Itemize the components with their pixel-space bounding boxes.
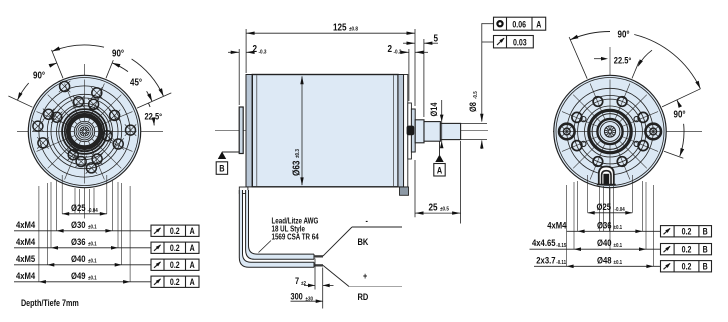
left view M4 hole dia30 bc right [102, 131, 112, 141]
left end view centerline horizontal [17, 131, 163, 133]
svg-text:A: A [190, 260, 195, 270]
dimension dia 8 -0.5 [481, 23, 483, 121]
right mounting boss (side view) [411, 109, 415, 152]
dimension 2 -0.3 right [408, 49, 410, 101]
svg-text:B: B [703, 245, 708, 255]
right dim row dia25 [588, 212, 633, 214]
shaft seal block [407, 126, 415, 136]
svg-text:±0.1: ±0.1 [88, 275, 97, 282]
right view 4.65 hole dia40 bc at -113deg [572, 141, 582, 151]
svg-text:-0.15: -0.15 [556, 243, 566, 250]
right view bolt circle dia48 [567, 88, 653, 174]
left view M4 hole dia49 bc right [126, 125, 136, 135]
right view M4 hole dia36 bc at -158deg [593, 157, 603, 167]
svg-text:2: 2 [388, 43, 393, 54]
motor body [252, 75, 398, 187]
svg-text:7: 7 [295, 275, 299, 286]
left view extension lines to dimension rows [61, 175, 63, 214]
right inner plate [408, 103, 412, 159]
svg-text:±2: ±2 [301, 281, 306, 288]
datum B flag [222, 151, 239, 153]
left view radial line 66deg [137, 93, 171, 108]
svg-text:0.2: 0.2 [682, 227, 692, 237]
svg-text:Ø40: Ø40 [597, 237, 612, 248]
svg-text:Ø36: Ø36 [71, 236, 86, 247]
svg-text:90°: 90° [674, 109, 686, 120]
svg-text:300: 300 [291, 291, 304, 302]
svg-text:0.2: 0.2 [682, 262, 692, 272]
svg-text:1569 CSA TR 64: 1569 CSA TR 64 [272, 234, 319, 242]
left view shaft spline [80, 127, 89, 136]
left view M4 hole dia30 bc bottom-left [68, 150, 78, 160]
svg-text:Ø25: Ø25 [71, 202, 86, 213]
right view arc 90deg right [677, 100, 679, 104]
feature control frame runout 0.2 B for dia36 [661, 226, 712, 237]
right view 3.7 hole dia48 bc right [645, 124, 661, 140]
left end view flange disc [28, 75, 140, 187]
right view circle dia25 boss [585, 106, 636, 157]
left view M4 hole dia49 bc bottom [86, 163, 96, 173]
feature control frame runout 0.2 A for dia30 [151, 225, 199, 236]
right view M4 hole dia36 bc at 158deg [617, 157, 627, 167]
datum A flag [439, 142, 441, 156]
left view arc 90deg left [17, 83, 28, 100]
right view radial spokes [558, 80, 662, 184]
svg-text:4xM5: 4xM5 [16, 253, 35, 264]
svg-text:±0.1: ±0.1 [88, 258, 97, 265]
svg-text:5: 5 [434, 33, 439, 44]
svg-text:4x4.65: 4x4.65 [532, 237, 556, 248]
left view M4 hole dia36 bc bottom [76, 157, 86, 167]
svg-text:0.2: 0.2 [170, 243, 180, 253]
wire 1 stripped end [313, 254, 315, 259]
left view hub rings [74, 121, 94, 141]
svg-text:±0.3: ±0.3 [295, 149, 302, 158]
left view M4 hole dia36 bc bottom-right [92, 154, 102, 164]
right view gland terminal block [603, 174, 609, 184]
svg-text:-0.11: -0.11 [556, 260, 566, 267]
left view M4 hole dia36 bc right-up [110, 110, 120, 120]
right view 4.65 hole dia40 bc at 113deg [638, 141, 648, 151]
svg-text:2x3.7: 2x3.7 [536, 254, 555, 265]
svg-text:0.03: 0.03 [513, 38, 527, 48]
right view radial line 65deg [662, 89, 700, 107]
left view M5 hole dia40 bc right-down [113, 139, 123, 149]
svg-text:Depth/Tiefe 7mm: Depth/Tiefe 7mm [21, 298, 79, 308]
svg-text:Ø63: Ø63 [291, 161, 302, 176]
svg-text:±0.1: ±0.1 [614, 225, 623, 232]
feature control frame runout 0.2 B for dia48 [661, 261, 712, 272]
right view 4.65 hole dia40 bc at 67deg [638, 112, 648, 122]
right view radial line 22.5deg [632, 61, 639, 78]
svg-text:Ø8: Ø8 [467, 102, 478, 112]
svg-text:±0.1: ±0.1 [88, 241, 97, 248]
dimension 300 +-30 [291, 300, 323, 302]
svg-text:0.2: 0.2 [682, 245, 692, 255]
right view small hole at -115deg [581, 141, 586, 146]
svg-text:Ø49: Ø49 [71, 270, 86, 281]
svg-text:90°: 90° [112, 48, 124, 59]
svg-text:B: B [703, 227, 708, 237]
svg-text:18 UL Style: 18 UL Style [272, 226, 306, 234]
feature control frame runout 0.03 [494, 36, 534, 48]
wire 2 stripped end [313, 262, 315, 267]
right end view centerline vertical [609, 47, 611, 250]
wire RD (positive lead) [323, 265, 349, 286]
svg-text:4xM4: 4xM4 [16, 236, 35, 247]
left view M5 hole dia40 bc top-right [92, 88, 102, 98]
feature control frame runout 0.2 A for dia49 [151, 276, 199, 287]
svg-text:0.2: 0.2 [170, 260, 180, 270]
svg-text:±0.1: ±0.1 [614, 243, 623, 250]
svg-text:Ø40: Ø40 [71, 253, 86, 264]
svg-text:Lead/Litze AWG: Lead/Litze AWG [272, 218, 319, 226]
svg-text:±0.1: ±0.1 [614, 260, 623, 267]
svg-text:Ø14: Ø14 [428, 102, 439, 116]
svg-text:0.2: 0.2 [170, 226, 180, 236]
feature control frame runout 0.2 A for dia36 [151, 242, 199, 253]
left view bolt circle dia40 [47, 94, 121, 168]
right view small hole at 115deg [634, 141, 639, 146]
right view radial line -23deg [569, 37, 587, 79]
left dim row dia25 [62, 213, 107, 215]
svg-text:+: + [363, 271, 367, 281]
svg-text:-0.5: -0.5 [473, 91, 480, 99]
left view M5 hole dia40 bc left-down [38, 138, 48, 148]
dimension dia 63 +-0.3 [301, 77, 303, 186]
svg-text:22.5°: 22.5° [614, 55, 632, 66]
svg-text:RD: RD [358, 291, 369, 302]
svg-text:125: 125 [333, 22, 347, 33]
svg-text:A: A [437, 164, 442, 175]
svg-text:Ø25: Ø25 [597, 201, 612, 212]
svg-text:BK: BK [358, 236, 370, 247]
svg-text:A: A [190, 243, 195, 253]
right dim row dia40 4x4.65 [530, 248, 661, 250]
svg-text:45°: 45° [130, 77, 142, 88]
left view bolt circle dia49 [39, 86, 130, 177]
shaft collar 5mm [415, 120, 424, 143]
dimension 2 -0.3 left [238, 49, 240, 105]
svg-text:-0.04: -0.04 [88, 208, 98, 215]
dimension 125 +-0.8 [245, 29, 247, 73]
svg-text:A: A [536, 20, 541, 30]
svg-text:±0.1: ±0.1 [88, 224, 97, 231]
shaft dia 8 section [440, 123, 460, 139]
left view radial line 22deg [106, 60, 113, 78]
left view M4 hole dia30 bc top-left [74, 97, 84, 107]
left view circle dia25 boss [59, 106, 110, 157]
cable exit channel [239, 190, 314, 267]
right view bottom cable gland [599, 167, 614, 185]
right view bolt circle dia40 [574, 96, 646, 168]
right view hub rings [592, 114, 628, 150]
left view bolt circle dia36 [51, 98, 118, 165]
left dim row dia40 4xM5 [14, 264, 151, 266]
right dim row dia36 4xM4 [567, 230, 661, 232]
left view arc 22.5deg [148, 103, 150, 107]
right view extension lines to dimension rows [587, 175, 589, 213]
right view arc 22.5deg [594, 58, 606, 60]
svg-text:-: - [366, 216, 369, 226]
left foot [239, 187, 248, 194]
feature control frame runout 0.2 A for dia40 [151, 259, 199, 270]
feature control frame concentricity 0.06 A [494, 17, 546, 30]
left view M5 hole dia40 bc left-up [44, 109, 54, 119]
left view arc 90deg top [52, 45, 104, 51]
right view 3.7 hole dia48 bc left [559, 124, 575, 140]
left dim row dia30 4xM4 [14, 230, 151, 232]
left view bolt circle dia30 [57, 104, 113, 160]
left view M4 hole dia49 bc top-left [60, 82, 70, 92]
right end plate [404, 75, 408, 187]
dimension 25 +-0.5 [414, 160, 416, 217]
svg-text:90°: 90° [33, 70, 45, 81]
svg-text:-0.3: -0.3 [394, 49, 402, 56]
right view M4 hole dia36 bc at -22deg [593, 97, 603, 107]
svg-text:±30: ±30 [306, 296, 314, 303]
svg-text:-0.3: -0.3 [259, 49, 267, 56]
svg-text:4xM4: 4xM4 [16, 219, 35, 230]
left view arc 45deg [112, 63, 128, 72]
right view radial line 110deg [664, 151, 683, 158]
wire BK (negative lead) [323, 227, 352, 256]
right view bolt circle dia36 [578, 99, 643, 164]
left end view centerline vertical [84, 64, 86, 219]
left view radial line -22deg [52, 50, 64, 78]
dimension dia 14 [441, 100, 443, 147]
shaft dia 14 section [424, 122, 440, 142]
svg-text:A: A [190, 226, 195, 236]
svg-text:0.06: 0.06 [512, 20, 526, 30]
right view shaft spline [604, 126, 615, 137]
right end view flange disc [554, 75, 666, 187]
dimension 7 +-2 [314, 259, 316, 290]
svg-text:2: 2 [253, 43, 258, 54]
svg-text:B: B [219, 163, 224, 174]
right end view centerline horizontal [553, 131, 702, 133]
svg-text:22.5°: 22.5° [145, 111, 163, 122]
right view M4 hole dia36 bc at 22deg [617, 97, 627, 107]
right view 4.65 hole dia40 bc at -67deg [572, 112, 582, 122]
svg-text:A: A [190, 277, 195, 287]
svg-text:Ø36: Ø36 [597, 219, 612, 230]
svg-text:4xM4: 4xM4 [16, 270, 35, 281]
svg-text:±0.5: ±0.5 [440, 206, 449, 213]
right foot [400, 187, 409, 195]
dimension 5 collar [423, 39, 425, 117]
right view arc 90deg top [570, 31, 610, 39]
left dim row dia49 4xM4 [14, 281, 151, 283]
left view bearing boss thick ring [68, 115, 100, 147]
right view small hole at 65deg [634, 117, 639, 122]
left view M4 hole dia36 bc left-up [52, 112, 62, 122]
left dim row dia36 4xM4 [14, 247, 151, 249]
left view M4 hole dia30 bc top-right [89, 99, 99, 109]
right flange band [398, 75, 404, 187]
svg-text:90°: 90° [618, 29, 630, 40]
left mounting boss (side view) [239, 107, 243, 154]
svg-text:4xM4: 4xM4 [547, 219, 566, 230]
left view M4 hole dia49 bc left [33, 121, 43, 131]
svg-text:Ø48: Ø48 [597, 254, 612, 265]
right view small hole at -65deg [581, 117, 586, 122]
lead text leader [259, 241, 272, 253]
motor side view centerline [215, 129, 488, 131]
left view radial line -65deg [8, 96, 32, 107]
feature control frame runout 0.2 B for dia40 [661, 244, 712, 255]
svg-text:25: 25 [429, 202, 438, 213]
left view radial spokes [33, 80, 137, 184]
svg-text:-0.04: -0.04 [615, 206, 625, 213]
svg-text:Ø30: Ø30 [71, 219, 86, 230]
svg-text:0.2: 0.2 [170, 277, 180, 287]
right dim row dia48 2x3.7 [534, 265, 661, 267]
svg-text:B: B [703, 262, 708, 272]
svg-text:±0.8: ±0.8 [349, 26, 358, 33]
left flange band [246, 75, 252, 187]
